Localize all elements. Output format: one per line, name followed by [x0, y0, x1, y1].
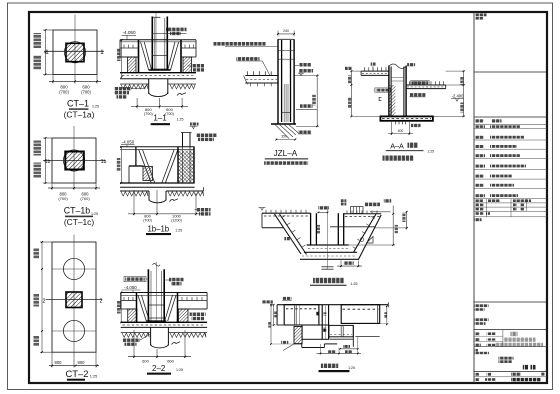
2-2 wing slab dowels — [123, 297, 125, 301]
title block line y72 — [474, 71, 547, 73]
svg-text:(700): (700) — [143, 218, 152, 222]
1-1 precast column shafts — [151, 17, 153, 71]
1b bottom slab lines — [120, 182, 195, 184]
CT-1 left dim text 600(700) lower — [34, 55, 42, 70]
1b right wall stub above — [182, 133, 184, 148]
1b right note C10 cushion — [197, 208, 211, 212]
svg-text:-2.400: -2.400 — [452, 94, 465, 99]
pit apex extension line — [370, 211, 391, 213]
A-A right slab annotation 1 — [411, 81, 429, 86]
2-2 cup outer walls — [136, 293, 138, 323]
svg-text:1b–1b: 1b–1b — [147, 225, 169, 234]
pit floor lines — [307, 244, 349, 246]
svg-text:600: 600 — [167, 358, 174, 363]
pit slope symbol triangle — [367, 237, 374, 244]
pit top annotation 2 — [384, 199, 391, 202]
epit lower-right box — [329, 325, 353, 336]
2-2 left boxed annotation — [124, 277, 146, 282]
title block line y117 — [474, 116, 547, 118]
svg-text:800: 800 — [55, 360, 63, 365]
epit top slab line — [277, 304, 388, 306]
title block separator y302 — [474, 301, 547, 303]
2-2 soil hatch — [122, 333, 149, 337]
CT-1 pile circle — [64, 42, 85, 63]
CT-1 title underline — [69, 108, 89, 110]
CT-2 left dim 1850 middle — [34, 294, 40, 307]
1b bottom dimension — [133, 190, 135, 216]
pit left raft slab top — [262, 212, 311, 214]
CT-1 left dimension line — [45, 30, 47, 75]
svg-text:1b: 1b — [101, 159, 107, 165]
svg-text:350: 350 — [281, 135, 287, 139]
CT-2 left dimension line — [41, 242, 43, 352]
1-1 foundation top lines — [120, 39, 196, 41]
JZL-A wall ties — [279, 49, 294, 51]
JZL-A left annotation anchor note — [214, 42, 266, 46]
pit bottom dim 500 — [340, 261, 342, 268]
2-2 column ties — [148, 304, 164, 306]
epit upper-right box — [341, 305, 380, 324]
2-2 cushion bottom line — [121, 332, 151, 334]
JZL-A angle note L75X5 — [298, 131, 311, 134]
note line — [474, 349, 478, 352]
JZL-A beam interior stirrups — [283, 84, 285, 122]
JZL-A bottom leaders — [275, 124, 290, 139]
1-1 pile shaft — [148, 79, 150, 94]
pit top annotation text — [365, 203, 380, 207]
2-2 brick formwork block right — [179, 309, 189, 322]
pit centerline break marks — [322, 266, 334, 268]
CT-1 section line 1-1 — [44, 50, 104, 52]
A-A left dimension chain — [350, 71, 352, 116]
drawing list rows — [475, 125, 485, 128]
CT-2 column section (hatched) — [66, 292, 82, 308]
CT-2 pile cap outline — [52, 242, 96, 352]
JZL-A wall outline — [277, 39, 279, 124]
JZL-A beam bottom — [271, 123, 296, 125]
svg-text:CT–2: CT–2 — [66, 368, 89, 379]
1-1 cup inner sloped faces — [141, 42, 149, 70]
JZL-A elevation mark right — [299, 69, 313, 73]
1-1 brick formwork block right (hatched) — [183, 57, 192, 73]
2-2 column base — [146, 320, 166, 322]
pit slope symbol circle — [360, 238, 364, 242]
1b pile cutoff squiggle — [170, 199, 179, 202]
1b pile rounded bottom — [149, 199, 166, 203]
A-A wall top break curves — [389, 64, 406, 68]
1b left hatched block — [143, 167, 153, 181]
1-1 column centerline with top tick — [155, 13, 157, 70]
A-A wall ties — [391, 77, 404, 79]
pit left slab hooks — [265, 210, 267, 213]
pit right raft slab — [344, 213, 382, 215]
A-A wall outline — [388, 66, 390, 117]
1-1 cup outer walls — [138, 40, 140, 73]
epit title underline thick — [319, 370, 350, 372]
pit left elevation tick — [259, 207, 266, 209]
svg-text:(CT–1a): (CT–1a) — [64, 110, 95, 120]
JZL-A slab top hooks — [246, 71, 248, 75]
A-A left slab — [361, 70, 389, 72]
svg-text:(700): (700) — [81, 89, 91, 94]
A-A top-left elevation note — [345, 67, 352, 70]
CT-2 top pile axis line — [52, 268, 96, 270]
1b pile shaft — [148, 191, 150, 201]
CT-2 left dim 600 top — [34, 248, 40, 259]
svg-text:600: 600 — [142, 358, 149, 363]
1-1 pile rounded bottom — [149, 92, 168, 96]
pit centerline — [327, 206, 329, 270]
pit top small dimension — [318, 206, 329, 209]
epit bottom profile — [294, 343, 302, 345]
A-A wall lower hatch strip — [389, 85, 396, 116]
CT-1b pile circle — [63, 150, 84, 171]
title block sign-off cell text — [476, 14, 487, 17]
1b right JZL annotation — [196, 134, 217, 138]
A-A top bar note 4C22 — [407, 63, 415, 66]
A-A strip footing — [380, 116, 433, 120]
1b right wall hatch fill — [179, 151, 194, 183]
svg-text:-4.050: -4.050 — [122, 30, 135, 35]
1b left step ledge — [129, 165, 144, 167]
svg-text:1:25: 1:25 — [175, 229, 182, 233]
title block separator y329.5 — [474, 329, 547, 331]
1-1 bottom dimension — [136, 98, 138, 109]
A-A right slab — [406, 84, 446, 86]
1-1 soil hatch under cushion — [121, 85, 148, 89]
epit bottom small dim — [343, 345, 350, 348]
epit embedded mark upper-left box — [316, 312, 319, 316]
svg-text:1: 1 — [100, 49, 104, 56]
stamp text — [523, 365, 528, 370]
1-1 cushion bottom line — [120, 83, 149, 85]
2-2 right annotation embedded plate — [169, 278, 184, 282]
1-1 title underline thick — [151, 123, 170, 125]
pit ladder stiffener symbol — [351, 207, 364, 214]
svg-text:1:25: 1:25 — [177, 118, 184, 122]
1-1 pile cutoff squiggle — [177, 93, 186, 96]
A-A right slab annotation 2 — [409, 93, 425, 96]
2-2 column shafts — [147, 269, 149, 321]
svg-text:-4.050: -4.050 — [124, 285, 137, 290]
pit title underline — [310, 284, 347, 286]
1-1 column tie lines — [152, 55, 167, 57]
CT-1b pile cap outline — [52, 138, 96, 183]
A-A right dimension chain — [463, 71, 465, 116]
CT-1b title underline — [65, 216, 93, 218]
epit bottom-left leader — [283, 344, 294, 351]
1-1 wing slab lines — [120, 47, 139, 49]
CT-1b bottom dimension — [51, 183, 53, 190]
2-2 right note C10 cushion — [190, 313, 206, 317]
svg-text:(1200): (1200) — [171, 218, 182, 222]
epit right lower step — [352, 325, 354, 346]
2-2 cup sloped faces — [138, 295, 146, 321]
project title center — [499, 357, 514, 360]
epit title — [321, 364, 338, 368]
JZL-A subtitle — [264, 161, 308, 165]
client name block — [475, 304, 489, 307]
pit right excavation slopes — [358, 215, 381, 260]
CT-1 column centerline — [74, 15, 76, 75]
pit title — [313, 278, 344, 283]
pit right dim chain 1 — [392, 206, 394, 246]
2-2 pile rounded bottom — [151, 344, 169, 348]
1b foundation top lines — [120, 146, 195, 148]
approver row 3 — [475, 344, 481, 347]
1b cushion bottom line — [120, 190, 149, 192]
CT-1 left dim text 800(700) upper — [34, 33, 42, 48]
svg-text:1:25: 1:25 — [176, 368, 183, 372]
svg-text:1–1: 1–1 — [153, 114, 167, 123]
bottom row 2 — [475, 378, 480, 381]
JZL-A right height dimension 900 — [316, 76, 318, 127]
1-1 bottom slab lines — [120, 72, 196, 74]
CT-2 title underline thick — [67, 379, 85, 381]
CT-1 pile cap outline — [53, 30, 97, 75]
CT-1b left dim text 800(700) — [34, 141, 42, 156]
1-1 column base line — [149, 69, 171, 71]
epit right dim — [386, 306, 388, 324]
epit right end tick — [387, 302, 389, 307]
CT-2 bottom pile circle — [63, 320, 84, 341]
svg-text:A–A: A–A — [390, 141, 404, 150]
svg-text:240: 240 — [283, 29, 289, 33]
epit middle wall — [321, 305, 323, 340]
CT-1b left dimension line — [45, 138, 47, 183]
bottom separator y371.4 — [474, 370, 547, 372]
A-A small bar note above slab — [371, 63, 376, 66]
pit left raft slab bottom — [262, 227, 283, 229]
A-A footing dowels — [395, 121, 397, 125]
1b soil hatch — [121, 192, 148, 196]
2-2 wing slab lines — [121, 300, 137, 302]
1-1 brick formwork block left (hatched) — [128, 57, 137, 73]
CT-1 bottom dimension line — [52, 75, 54, 84]
1b elevation marker above right wall — [190, 123, 199, 126]
epit upper-left box — [284, 305, 319, 325]
pit small 2-line dim left of ladder — [341, 199, 346, 202]
note under revision table — [475, 218, 482, 221]
pit right dim chain 2 — [406, 211, 408, 230]
epit hatched pier — [294, 327, 302, 344]
epit top annotation 4.050 — [282, 297, 291, 300]
pit sump right wall — [337, 213, 339, 245]
A-A subtitle — [383, 156, 414, 161]
svg-text:1:25: 1:25 — [90, 375, 97, 379]
2-2 pile shaft — [150, 327, 152, 345]
1-1 wing slab dowels — [123, 45, 125, 49]
JZL-A floor slab — [245, 75, 278, 77]
project name block — [475, 318, 489, 321]
A-A bottom dim 400 — [391, 121, 393, 135]
svg-text:(700): (700) — [144, 112, 154, 116]
1-1 embedded plate annotation M-1 — [152, 32, 186, 34]
1-1 pile note annotation (3 lines) — [115, 87, 132, 90]
pit sump left wall — [310, 213, 312, 245]
svg-text:2–2: 2–2 — [152, 364, 166, 373]
svg-text:JZL–A: JZL–A — [274, 149, 298, 158]
svg-text:800: 800 — [78, 360, 86, 365]
svg-text:1:25: 1:25 — [91, 212, 98, 216]
svg-text:1:25: 1:25 — [427, 150, 434, 154]
1b title underline thick — [146, 233, 171, 235]
epit lower box — [302, 325, 329, 339]
JZL-A left annotation slab bars note — [236, 57, 259, 61]
approver row 1 — [475, 332, 480, 335]
svg-text:CT–1b: CT–1b — [64, 206, 91, 216]
svg-text:CT–1: CT–1 — [67, 99, 89, 109]
2-2 column centerline with break mark — [155, 262, 157, 322]
2-2 foundation top lines — [121, 292, 207, 294]
drawing list header — [475, 119, 484, 122]
CT-1b left dim text 600(700) — [34, 163, 42, 178]
epit bottom main dim — [320, 344, 322, 355]
CT-1b column cup section (hatched) — [65, 152, 84, 170]
pit interior depth dim — [317, 225, 320, 234]
A-A bracket mark — [379, 97, 381, 100]
2-2 pile cutoff squiggle — [172, 342, 181, 345]
CT-2 column centerline — [73, 235, 75, 353]
A-A footing bar note — [411, 124, 421, 127]
CT-1 column section (hatched) — [66, 43, 84, 61]
svg-text:400: 400 — [398, 129, 404, 133]
1-1 right note C10 cushion — [192, 64, 205, 68]
epit inner small dims — [323, 312, 326, 315]
A-A title underline — [386, 150, 424, 152]
svg-text:1:25: 1:25 — [350, 282, 357, 286]
CT-2 bottom dimension — [51, 352, 53, 367]
JZL-A wall rebar — [281, 40, 283, 122]
title block divider line — [473, 12, 475, 383]
JZL-A title underline — [265, 158, 308, 160]
approver row 2 — [475, 338, 480, 341]
CT-2 left dim 600 bottom — [34, 336, 40, 347]
svg-text:1:25: 1:25 — [348, 366, 355, 370]
1-1 left height dimension — [121, 40, 123, 77]
svg-text:-4.050: -4.050 — [122, 140, 135, 145]
svg-text:(700): (700) — [80, 196, 90, 201]
JZL-A right bar note 4C20 — [299, 63, 311, 67]
svg-text:2: 2 — [42, 298, 45, 304]
1b left height dimension 1000 — [120, 147, 122, 183]
1b cup sloped faces — [139, 150, 152, 183]
CT-1b section line — [43, 160, 105, 162]
JZL-A slab break line left — [244, 76, 248, 85]
2-2 title underline thick — [147, 373, 171, 375]
2-2 brick formwork block left — [128, 309, 137, 322]
svg-text:2: 2 — [99, 298, 102, 304]
JZL-A right middle leader 2C12 — [300, 104, 313, 108]
revision table — [486, 199, 488, 217]
pit mid-slope note — [284, 237, 289, 240]
2-2 left height dimension — [120, 293, 122, 323]
epit left dims — [273, 305, 275, 325]
1b right wall box — [177, 147, 179, 183]
pit left excavation slopes — [275, 214, 302, 254]
2-2 left bottom note — [123, 339, 140, 342]
epit left elevation note — [262, 300, 273, 303]
svg-text:(700): (700) — [59, 89, 69, 94]
1b left wall upper — [135, 147, 137, 166]
svg-text:1:25: 1:25 — [92, 104, 99, 108]
CT-2 top pile circle — [63, 258, 84, 279]
CT-2 section line 2-2 — [46, 299, 102, 301]
2-2 bottom slab lines — [121, 321, 207, 323]
2-2 bottom dimension — [133, 330, 135, 358]
A-A boxed mortar note — [375, 88, 391, 92]
epit left outer wall — [276, 305, 278, 325]
svg-text:(CT–1c): (CT–1c) — [64, 217, 94, 227]
epit ledge line — [277, 324, 319, 326]
CT-1b column centerline — [73, 126, 75, 184]
bottom row 1 — [475, 373, 480, 376]
svg-text:(700): (700) — [58, 196, 68, 201]
CT-2 bottom pile axis line — [52, 330, 96, 332]
